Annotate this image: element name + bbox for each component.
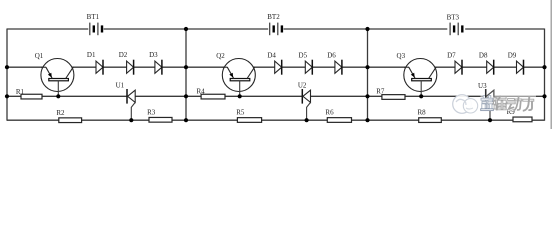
svg-text:R7: R7 [376, 87, 385, 95]
svg-text:U2: U2 [298, 81, 307, 89]
svg-text:R6: R6 [325, 109, 334, 117]
resistor R4 body [201, 94, 225, 99]
resistor R2 body [59, 118, 82, 123]
wire bottom row [7, 119, 545, 121]
svg-text:Q1: Q1 [35, 52, 44, 60]
resistor R3 body [149, 117, 172, 122]
watermark char dong [507, 96, 522, 111]
thyristor U3 visible top traces [486, 89, 494, 98]
svg-text:R2: R2 [56, 109, 65, 117]
svg-text:D1: D1 [87, 51, 96, 59]
watermark logo disc [453, 95, 478, 114]
svg-text:D8: D8 [479, 51, 488, 59]
transistor Q3 [404, 59, 437, 97]
transistor Q1 [41, 59, 74, 97]
wire right border [544, 29, 546, 121]
wire left border [6, 29, 8, 121]
wire base-resistor row [7, 95, 545, 97]
diode D3 [155, 60, 162, 75]
thyristor U3 [486, 89, 494, 120]
wire collector-diode row [7, 66, 545, 68]
svg-text:BT2: BT2 [267, 13, 280, 21]
transistor Q2 [222, 59, 255, 97]
watermark text underlay [481, 95, 537, 111]
diode D8 [487, 60, 494, 75]
battery BT3 [450, 23, 462, 36]
svg-text:D2: D2 [119, 51, 128, 59]
wire top row [104, 28, 269, 30]
right edge line [550, 0, 552, 129]
watermark char li [523, 96, 534, 111]
svg-text:D6: D6 [327, 51, 336, 59]
svg-text:R8: R8 [418, 109, 427, 117]
svg-text:U1: U1 [116, 82, 125, 90]
diode D7 [455, 60, 462, 75]
wire top row [284, 28, 448, 30]
diode D5 [305, 60, 312, 75]
resistor R9 body [513, 117, 532, 122]
svg-text:Q2: Q2 [216, 52, 225, 60]
diode D1 [96, 60, 103, 75]
svg-text:R5: R5 [236, 109, 245, 117]
svg-text:R1: R1 [16, 88, 25, 96]
svg-text:BT3: BT3 [447, 13, 460, 21]
wire stage divider 1 [185, 29, 187, 121]
wire top row [465, 28, 544, 30]
thyristor U2 [302, 89, 310, 120]
diode D9 [517, 60, 524, 75]
svg-text:R4: R4 [197, 87, 206, 95]
diode D6 [335, 60, 342, 75]
wire stage divider 2 [367, 29, 369, 121]
svg-text:BT1: BT1 [87, 13, 100, 21]
svg-text:D5: D5 [299, 51, 308, 59]
resistor R7 body [382, 95, 405, 100]
resistor R6 body [327, 118, 351, 123]
resistor R5 body [237, 118, 261, 123]
thyristor U1 [127, 89, 135, 120]
resistor R1 body [21, 94, 42, 99]
svg-text:Q3: Q3 [397, 52, 406, 60]
battery BT1 [90, 23, 102, 36]
battery BT2 [270, 23, 282, 36]
watermark char lan [481, 96, 494, 111]
diode D2 [127, 60, 134, 75]
wire top row [7, 28, 88, 30]
watermark char hai [494, 96, 507, 111]
svg-text:R3: R3 [147, 109, 156, 117]
diode D4 [275, 60, 282, 75]
svg-text:D4: D4 [267, 51, 276, 59]
resistor R8 body [419, 118, 442, 123]
svg-text:D7: D7 [447, 51, 456, 59]
svg-text:D9: D9 [508, 51, 517, 59]
svg-text:U3: U3 [478, 82, 487, 90]
svg-text:D3: D3 [149, 51, 158, 59]
